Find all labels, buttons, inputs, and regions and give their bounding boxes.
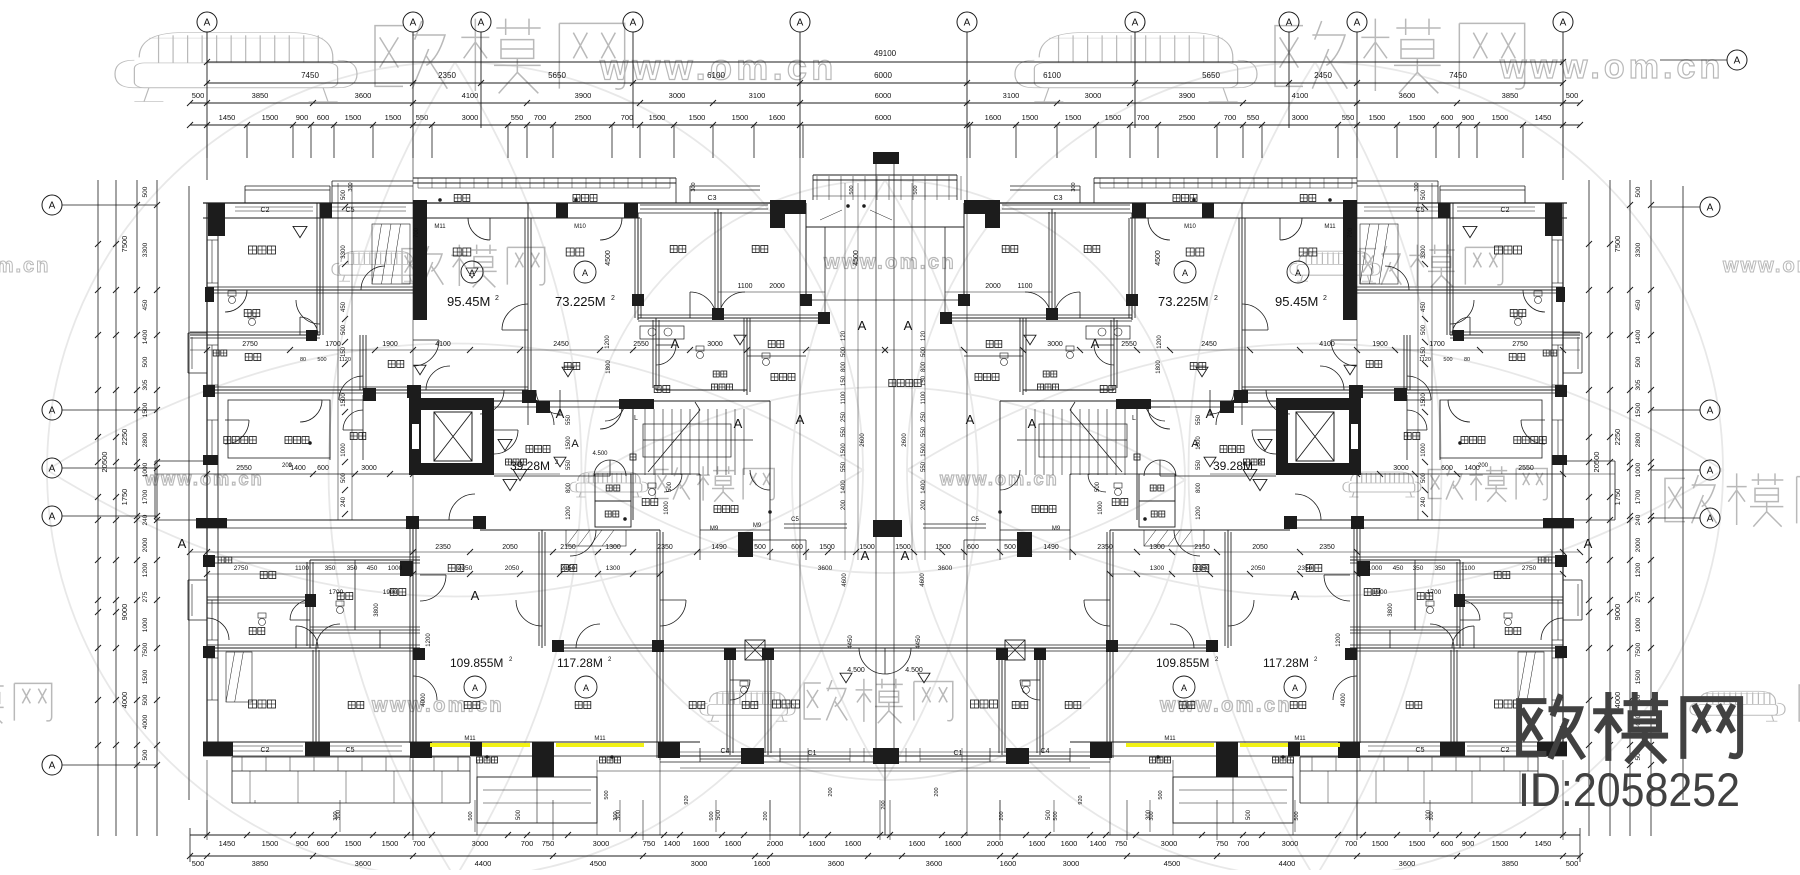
svg-text:A: A — [671, 336, 680, 351]
svg-text:920: 920 — [684, 795, 690, 804]
svg-text:350: 350 — [1413, 565, 1424, 572]
svg-text:4100: 4100 — [435, 341, 451, 348]
svg-text:240: 240 — [1421, 496, 1427, 507]
svg-text:1450: 1450 — [219, 839, 236, 848]
svg-text:2350: 2350 — [1298, 565, 1313, 572]
svg-text:500: 500 — [1046, 809, 1052, 820]
svg-text:450: 450 — [1393, 565, 1404, 572]
svg-text:A: A — [1707, 466, 1714, 477]
svg-text:550: 550 — [1342, 113, 1355, 122]
svg-text:A: A — [966, 412, 975, 427]
svg-text:700: 700 — [1224, 113, 1237, 122]
svg-text:1100: 1100 — [1017, 283, 1032, 290]
svg-text:1500: 1500 — [262, 113, 279, 122]
svg-text:3000: 3000 — [593, 839, 610, 848]
svg-text:450: 450 — [367, 565, 378, 572]
svg-text:700: 700 — [414, 227, 420, 238]
svg-text:95.45M: 95.45M — [1275, 294, 1318, 309]
svg-text:1500: 1500 — [142, 669, 149, 684]
svg-text:250: 250 — [841, 411, 847, 422]
svg-text:7500: 7500 — [142, 642, 149, 657]
svg-text:2750: 2750 — [234, 565, 249, 572]
svg-text:4450: 4450 — [848, 635, 854, 649]
svg-text:1400: 1400 — [664, 839, 681, 848]
svg-text:1500: 1500 — [819, 544, 835, 551]
svg-text:1400: 1400 — [1635, 329, 1642, 344]
svg-text:2150: 2150 — [560, 544, 576, 551]
svg-text:750: 750 — [1115, 839, 1128, 848]
svg-text:3800: 3800 — [1388, 603, 1394, 617]
svg-text:1900: 1900 — [1373, 589, 1388, 596]
svg-text:A: A — [1182, 268, 1188, 278]
svg-text:120: 120 — [921, 330, 927, 341]
svg-text:80: 80 — [300, 357, 306, 363]
svg-text:C2: C2 — [261, 207, 270, 214]
svg-text:1200: 1200 — [142, 562, 149, 577]
svg-text:2: 2 — [495, 295, 499, 302]
svg-text:900: 900 — [1462, 113, 1475, 122]
svg-text:1500: 1500 — [1492, 113, 1509, 122]
svg-text:A: A — [471, 588, 480, 603]
svg-text:300: 300 — [1414, 182, 1420, 191]
svg-text:2350: 2350 — [657, 544, 673, 551]
svg-text:1500: 1500 — [341, 393, 347, 407]
svg-text:2600: 2600 — [902, 433, 908, 447]
svg-text:A: A — [1354, 18, 1361, 29]
svg-text:2350: 2350 — [1097, 544, 1113, 551]
svg-text:500: 500 — [341, 189, 347, 200]
svg-text:1600: 1600 — [769, 113, 786, 122]
svg-text:2250: 2250 — [1613, 429, 1622, 446]
svg-text:305: 305 — [1635, 379, 1642, 390]
svg-text:109.855M: 109.855M — [1156, 656, 1209, 670]
svg-text:700: 700 — [1137, 113, 1150, 122]
svg-text:700: 700 — [534, 113, 547, 122]
svg-text:1500: 1500 — [1409, 113, 1426, 122]
svg-text:300: 300 — [691, 182, 697, 191]
svg-text:500: 500 — [754, 544, 766, 551]
svg-text:A: A — [478, 18, 485, 29]
svg-text:2050: 2050 — [1251, 565, 1266, 572]
svg-text:2750: 2750 — [1522, 565, 1537, 572]
svg-text:150: 150 — [921, 375, 927, 386]
svg-text:550: 550 — [566, 459, 572, 470]
svg-text:600: 600 — [1441, 113, 1454, 122]
svg-text:2350: 2350 — [458, 565, 473, 572]
svg-text:3000: 3000 — [472, 839, 489, 848]
svg-text:1400: 1400 — [921, 480, 927, 494]
svg-text:6000: 6000 — [875, 91, 892, 100]
svg-text:1600: 1600 — [693, 839, 710, 848]
svg-text:A: A — [964, 18, 971, 29]
svg-text:750: 750 — [643, 839, 656, 848]
svg-text:1500: 1500 — [1409, 839, 1426, 848]
svg-text:1500: 1500 — [732, 113, 749, 122]
svg-text:2500: 2500 — [575, 113, 592, 122]
svg-text:A: A — [469, 268, 475, 278]
svg-text:1700: 1700 — [142, 489, 149, 504]
svg-text:900: 900 — [1462, 839, 1475, 848]
svg-text:3000: 3000 — [669, 91, 686, 100]
svg-text:6100: 6100 — [1043, 71, 1061, 80]
svg-text:1400: 1400 — [841, 480, 847, 494]
svg-text:1200: 1200 — [426, 633, 432, 647]
svg-text:80: 80 — [1464, 357, 1470, 363]
svg-text:A: A — [472, 683, 478, 693]
svg-text:2450: 2450 — [1201, 341, 1217, 348]
svg-text:1700: 1700 — [325, 341, 341, 348]
svg-text:4100: 4100 — [1292, 91, 1309, 100]
svg-text:550: 550 — [841, 461, 847, 472]
svg-text:1500: 1500 — [262, 839, 279, 848]
svg-text:A: A — [49, 512, 56, 523]
svg-text:1000: 1000 — [142, 462, 149, 477]
svg-text:2050: 2050 — [1252, 544, 1268, 551]
svg-text:1600: 1600 — [1029, 839, 1046, 848]
svg-text:4450: 4450 — [916, 635, 922, 649]
svg-text:1500: 1500 — [841, 443, 847, 457]
svg-text:1200: 1200 — [1635, 562, 1642, 577]
svg-text:1800: 1800 — [606, 360, 612, 374]
svg-text:350: 350 — [347, 565, 358, 572]
svg-text:240: 240 — [142, 514, 149, 525]
svg-text:1000: 1000 — [341, 443, 347, 457]
svg-text:A: A — [1707, 406, 1714, 417]
svg-text:1500: 1500 — [689, 113, 706, 122]
svg-text:700: 700 — [1345, 839, 1358, 848]
svg-text:A: A — [571, 438, 579, 450]
svg-text:www.om.cn: www.om.cn — [939, 469, 1059, 489]
svg-text:5650: 5650 — [548, 71, 566, 80]
svg-text:C5: C5 — [346, 747, 355, 754]
svg-text:3600: 3600 — [355, 91, 372, 100]
svg-text:A: A — [1191, 438, 1199, 450]
svg-text:3000: 3000 — [1161, 839, 1178, 848]
svg-text:A: A — [797, 18, 804, 29]
svg-text:500: 500 — [1004, 544, 1016, 551]
svg-text:150: 150 — [1421, 346, 1427, 357]
svg-text:550: 550 — [1196, 459, 1202, 470]
svg-text:500: 500 — [1421, 324, 1427, 335]
svg-text:1000: 1000 — [1098, 501, 1104, 515]
svg-text:2: 2 — [1323, 295, 1327, 302]
svg-text:7500: 7500 — [1613, 236, 1622, 253]
svg-text:1400: 1400 — [1090, 839, 1107, 848]
svg-text:2450: 2450 — [1314, 71, 1332, 80]
svg-text:1800: 1800 — [1156, 360, 1162, 374]
svg-text:117.28M: 117.28M — [1263, 656, 1309, 670]
svg-text:4500: 4500 — [590, 859, 607, 868]
svg-text:1500: 1500 — [1065, 113, 1082, 122]
svg-text:2050: 2050 — [505, 565, 520, 572]
svg-text:3600: 3600 — [818, 565, 833, 572]
svg-text:3000: 3000 — [707, 341, 723, 348]
svg-text:3300: 3300 — [142, 242, 149, 257]
svg-text:500: 500 — [341, 324, 347, 335]
svg-text:350: 350 — [325, 565, 336, 572]
svg-text:200: 200 — [881, 800, 887, 809]
svg-text:500: 500 — [913, 185, 919, 194]
svg-text:3000: 3000 — [1063, 859, 1080, 868]
svg-text:A: A — [1707, 203, 1714, 214]
svg-text:1500: 1500 — [1372, 839, 1389, 848]
svg-text:1000: 1000 — [1635, 462, 1642, 477]
svg-text:1100: 1100 — [841, 391, 847, 405]
svg-text:2000: 2000 — [767, 839, 784, 848]
svg-text:600: 600 — [967, 544, 979, 551]
svg-text:240: 240 — [1635, 514, 1642, 525]
svg-text:300: 300 — [1426, 809, 1432, 820]
svg-text:600: 600 — [317, 839, 330, 848]
svg-text:A: A — [49, 201, 56, 212]
svg-text:3100: 3100 — [1003, 91, 1020, 100]
svg-text:4500: 4500 — [605, 250, 612, 266]
svg-text:3300: 3300 — [1421, 245, 1427, 259]
svg-text:3000: 3000 — [1085, 91, 1102, 100]
svg-text:240: 240 — [341, 496, 347, 507]
svg-text:1000: 1000 — [1635, 617, 1642, 632]
svg-text:2000: 2000 — [987, 839, 1004, 848]
svg-text:3000: 3000 — [361, 465, 377, 472]
svg-text:550: 550 — [921, 426, 927, 437]
svg-text:1000: 1000 — [664, 501, 670, 515]
svg-text:200: 200 — [921, 499, 927, 510]
svg-text:500: 500 — [1095, 481, 1101, 492]
svg-text:www.om.cn: www.om.cn — [1499, 48, 1724, 86]
svg-text:1300: 1300 — [1150, 565, 1165, 572]
svg-text:1600: 1600 — [1000, 859, 1017, 868]
svg-text:www.om.cn: www.om.cn — [371, 694, 504, 716]
svg-text:3000: 3000 — [1282, 839, 1299, 848]
svg-text:200: 200 — [828, 787, 834, 796]
svg-text:A: A — [49, 406, 56, 417]
svg-text:M9: M9 — [1052, 526, 1061, 532]
svg-text:800: 800 — [841, 361, 847, 372]
svg-text:3000: 3000 — [691, 859, 708, 868]
svg-text:3600: 3600 — [938, 565, 953, 572]
svg-text:2350: 2350 — [438, 71, 456, 80]
svg-text:800: 800 — [566, 482, 572, 493]
svg-text:1500: 1500 — [1369, 113, 1386, 122]
svg-text:3100: 3100 — [749, 91, 766, 100]
svg-text:700: 700 — [413, 839, 426, 848]
svg-text:1500: 1500 — [142, 402, 149, 417]
svg-text:www.om.cn: www.om.cn — [823, 251, 956, 273]
svg-text:3000: 3000 — [1393, 465, 1409, 472]
svg-text:C5: C5 — [791, 517, 799, 523]
svg-text:A: A — [1028, 416, 1037, 431]
svg-text:3300: 3300 — [1635, 242, 1642, 257]
svg-text:C4: C4 — [721, 748, 730, 755]
svg-text:A: A — [1560, 18, 1567, 29]
svg-text:500: 500 — [1635, 356, 1642, 367]
svg-text:3800: 3800 — [374, 603, 380, 617]
svg-text:M11: M11 — [434, 224, 446, 230]
svg-text:300: 300 — [348, 182, 354, 191]
svg-text:4.500: 4.500 — [905, 667, 923, 674]
svg-text:2550: 2550 — [236, 465, 252, 472]
svg-text:7500: 7500 — [120, 236, 129, 253]
svg-text:2450: 2450 — [553, 341, 569, 348]
svg-text:1600: 1600 — [909, 839, 926, 848]
svg-text:3600: 3600 — [1399, 91, 1416, 100]
svg-text:1100: 1100 — [737, 283, 752, 290]
svg-text:2150: 2150 — [561, 565, 576, 572]
svg-text:A: A — [410, 18, 417, 29]
svg-text:300: 300 — [336, 809, 342, 820]
svg-text:1700: 1700 — [1427, 589, 1442, 596]
svg-text:500: 500 — [1635, 186, 1642, 197]
svg-text:500: 500 — [142, 186, 149, 197]
svg-text:500: 500 — [667, 481, 673, 492]
svg-text:500: 500 — [1294, 811, 1300, 820]
svg-text:1200: 1200 — [605, 335, 611, 349]
svg-text:5650: 5650 — [1202, 71, 1220, 80]
svg-text:200: 200 — [841, 499, 847, 510]
svg-text:1500: 1500 — [1421, 393, 1427, 407]
svg-text:2050: 2050 — [502, 544, 518, 551]
svg-text:C5: C5 — [1416, 747, 1425, 754]
svg-text:2: 2 — [611, 295, 615, 302]
svg-text:L: L — [1132, 415, 1136, 422]
svg-text:2500: 2500 — [1179, 113, 1196, 122]
svg-text:600: 600 — [1441, 465, 1453, 472]
svg-text:200: 200 — [763, 811, 769, 820]
svg-text:A: A — [904, 318, 913, 333]
svg-text:A: A — [1091, 336, 1100, 351]
svg-text:4600: 4600 — [920, 573, 926, 587]
svg-text:4000: 4000 — [421, 693, 427, 707]
svg-text:A: A — [556, 406, 565, 421]
svg-text:A: A — [583, 683, 589, 693]
svg-text:1750: 1750 — [120, 489, 129, 506]
svg-text:3900: 3900 — [575, 91, 592, 100]
svg-text:1100: 1100 — [921, 391, 927, 405]
svg-text:1200: 1200 — [566, 506, 572, 520]
svg-text:2600: 2600 — [860, 433, 866, 447]
svg-text:A: A — [861, 548, 870, 563]
svg-text:C1: C1 — [808, 750, 817, 757]
svg-text:4400: 4400 — [475, 859, 492, 868]
svg-text:C3: C3 — [1054, 195, 1063, 202]
svg-text:450: 450 — [1635, 299, 1642, 310]
svg-text:120: 120 — [841, 330, 847, 341]
svg-text:1500: 1500 — [935, 544, 951, 551]
svg-text:A: A — [1295, 268, 1301, 278]
svg-text:3300: 3300 — [341, 245, 347, 259]
svg-text:1000: 1000 — [142, 617, 149, 632]
svg-text:900: 900 — [296, 113, 309, 122]
svg-text:9000: 9000 — [1613, 604, 1622, 621]
svg-text:4100: 4100 — [462, 91, 479, 100]
svg-text:1500: 1500 — [385, 113, 402, 122]
svg-text:3000: 3000 — [1292, 113, 1309, 122]
svg-text:1900: 1900 — [383, 589, 398, 596]
svg-text:7450: 7450 — [301, 71, 319, 80]
svg-text:2000: 2000 — [769, 283, 785, 290]
svg-text:3600: 3600 — [355, 859, 372, 868]
svg-text:1600: 1600 — [809, 839, 826, 848]
svg-text:550: 550 — [566, 414, 572, 425]
svg-text:2800: 2800 — [1635, 432, 1642, 447]
svg-text:C3: C3 — [708, 195, 717, 202]
svg-text:550: 550 — [1247, 113, 1260, 122]
svg-text:1490: 1490 — [711, 544, 727, 551]
svg-text:4600: 4600 — [842, 573, 848, 587]
svg-text:500: 500 — [716, 809, 722, 820]
svg-text:600: 600 — [1441, 839, 1454, 848]
svg-text:500: 500 — [1421, 189, 1427, 200]
svg-text:2550: 2550 — [1518, 465, 1534, 472]
svg-text:M11: M11 — [594, 736, 606, 742]
svg-text:6000: 6000 — [875, 113, 892, 122]
svg-text:1700: 1700 — [329, 589, 344, 596]
svg-text:920: 920 — [1078, 795, 1084, 804]
svg-text:A: A — [582, 268, 588, 278]
svg-text:1200: 1200 — [1336, 633, 1342, 647]
svg-text:C2: C2 — [1501, 207, 1510, 214]
svg-text:3000: 3000 — [1047, 341, 1063, 348]
svg-text:500: 500 — [849, 185, 855, 194]
svg-text:500: 500 — [1443, 357, 1452, 363]
svg-text:73.225M: 73.225M — [555, 294, 606, 309]
svg-text:73.225M: 73.225M — [1158, 294, 1209, 309]
svg-text:1500: 1500 — [1022, 113, 1039, 122]
svg-text:600: 600 — [317, 465, 329, 472]
svg-text:2750: 2750 — [242, 341, 258, 348]
svg-text:700: 700 — [1237, 839, 1250, 848]
svg-text:6100: 6100 — [707, 71, 725, 80]
svg-text:1500: 1500 — [1492, 839, 1509, 848]
svg-text:500: 500 — [709, 811, 715, 820]
svg-text:1500: 1500 — [649, 113, 666, 122]
svg-text:550: 550 — [416, 113, 429, 122]
svg-text:C1: C1 — [954, 750, 963, 757]
svg-text:9000: 9000 — [120, 604, 129, 621]
svg-text:4000: 4000 — [120, 692, 129, 709]
svg-text:1400: 1400 — [290, 465, 306, 472]
svg-text:500: 500 — [1566, 859, 1579, 868]
svg-text:C2: C2 — [261, 747, 270, 754]
svg-text:450: 450 — [341, 301, 347, 312]
svg-text:550: 550 — [511, 113, 524, 122]
svg-text:2000: 2000 — [142, 537, 149, 552]
svg-text:250: 250 — [921, 411, 927, 422]
svg-text:1300: 1300 — [606, 565, 621, 572]
svg-text:450: 450 — [142, 299, 149, 310]
svg-text:M9: M9 — [710, 526, 719, 532]
svg-text:1000: 1000 — [1368, 565, 1383, 572]
svg-text:L: L — [634, 415, 638, 422]
svg-text:800: 800 — [921, 361, 927, 372]
svg-text:A: A — [1132, 18, 1139, 29]
svg-text:109.855M: 109.855M — [450, 656, 503, 670]
svg-text:A: A — [734, 416, 743, 431]
svg-text:1200: 1200 — [1157, 335, 1163, 349]
svg-text:1500: 1500 — [1635, 669, 1642, 684]
svg-text:750: 750 — [542, 839, 555, 848]
svg-text:6000: 6000 — [874, 71, 892, 80]
svg-text:A: A — [1206, 406, 1215, 421]
svg-text:1300: 1300 — [1149, 544, 1165, 551]
svg-text:A: A — [796, 412, 805, 427]
svg-text:500: 500 — [142, 694, 149, 705]
svg-text:1900: 1900 — [382, 341, 398, 348]
svg-text:1490: 1490 — [1043, 544, 1059, 551]
svg-text:C2: C2 — [1501, 747, 1510, 754]
svg-text:3850: 3850 — [1502, 91, 1519, 100]
svg-text:500: 500 — [841, 346, 847, 357]
